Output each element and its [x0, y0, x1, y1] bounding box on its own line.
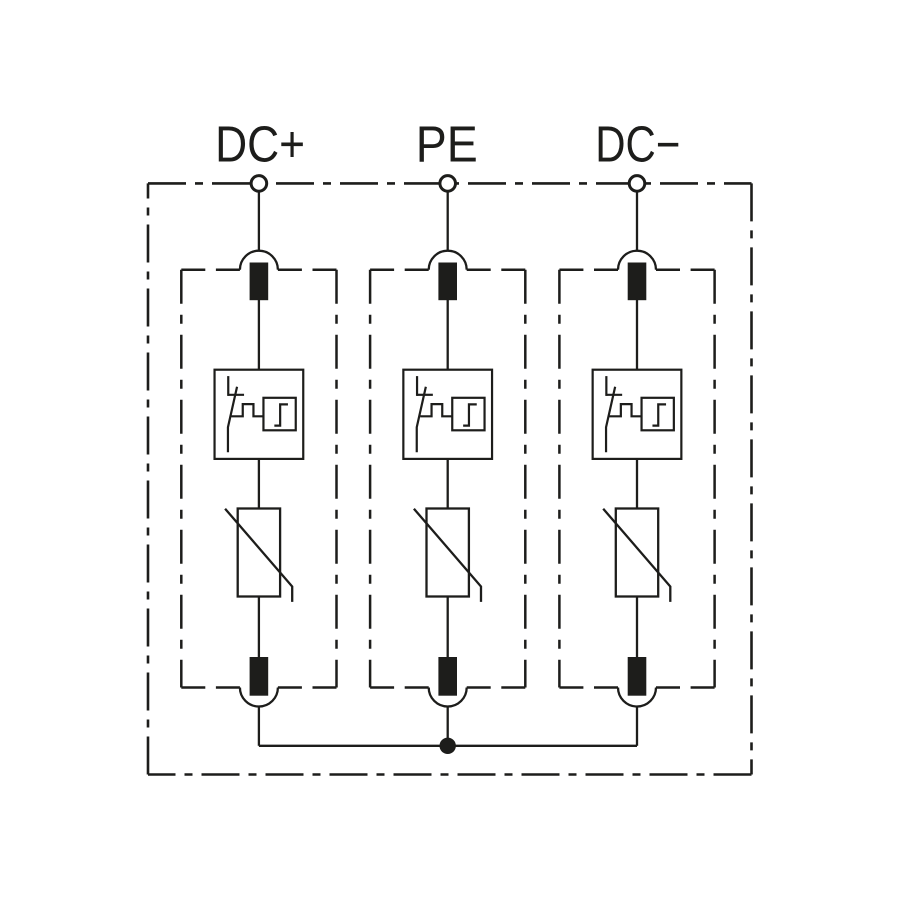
- plug-in contact (top, PE path): [429, 251, 467, 301]
- plug-in contact (top, DC- path): [618, 251, 656, 301]
- wire: [447, 597, 449, 658]
- protection module boundary (PE path, dash-dot): [370, 270, 525, 688]
- protection module boundary (DC+ path, dash-dot): [181, 270, 336, 688]
- device enclosure boundary (dash-dot outline): [148, 183, 752, 774]
- varistor (MOV, PE path): [414, 509, 481, 602]
- terminal DC-: [629, 176, 645, 252]
- wire: [636, 597, 638, 658]
- wire: [447, 459, 449, 509]
- plug-in contact (top, DC+ path): [240, 251, 278, 301]
- svg-text:DC+: DC+: [215, 115, 305, 172]
- svg-text:PE: PE: [416, 115, 478, 172]
- wire: [258, 459, 260, 509]
- protection module boundary (DC- path, dash-dot): [559, 270, 714, 688]
- wire: [636, 300, 638, 370]
- svg-text:DC−: DC−: [595, 115, 680, 172]
- PE equipotential bus wire: [259, 745, 637, 747]
- wire: [258, 706, 260, 745]
- varistor (MOV, DC+ path): [225, 509, 292, 602]
- wire: [447, 706, 449, 745]
- plug-in contact (bottom, DC- path): [618, 657, 656, 707]
- plug-in contact (bottom, DC+ path): [240, 657, 278, 707]
- wire: [258, 300, 260, 370]
- wire: [636, 459, 638, 509]
- wire: [258, 597, 260, 658]
- wire: [447, 300, 449, 370]
- thermal disconnect device with status indication (DC+ path): [215, 370, 304, 459]
- terminal PE: [440, 176, 456, 252]
- junction node on PE bus: [440, 738, 456, 754]
- terminal DC+: [251, 176, 267, 252]
- wire: [636, 706, 638, 745]
- plug-in contact (bottom, PE path): [429, 657, 467, 707]
- thermal disconnect device with status indication (DC- path): [593, 370, 682, 459]
- varistor (MOV, DC- path): [603, 509, 670, 602]
- thermal disconnect device with status indication (PE path): [403, 370, 492, 459]
